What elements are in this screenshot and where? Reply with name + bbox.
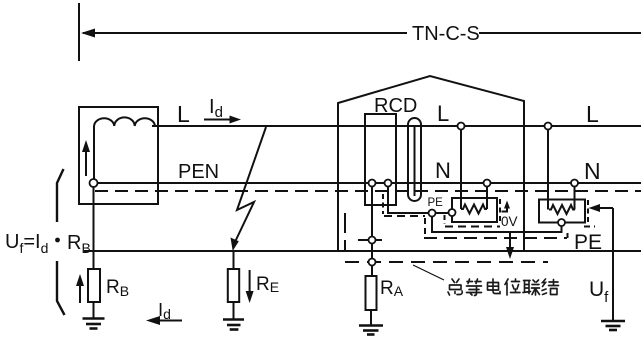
arrow Id bottom left [154, 320, 182, 322]
arrow 0V probe [502, 204, 508, 212]
dimension arrowhead [81, 29, 95, 38]
node equipotential junction [369, 259, 376, 266]
node appliance 2 PE terminal [558, 219, 565, 226]
appliance 1 case dashed [444, 215, 446, 224]
appliance 1 box [452, 198, 497, 222]
resistor RA [366, 276, 377, 310]
svg-text:PE: PE [574, 231, 602, 254]
svg-text:N: N [435, 158, 451, 183]
char deng [467, 279, 482, 296]
wire L line [152, 125, 641, 127]
resistor load appliance 2 [549, 205, 575, 214]
svg-text:PEN: PEN [178, 161, 219, 183]
svg-text:PE: PE [428, 197, 444, 209]
wire PEN node to RB [93, 187, 95, 269]
dimension arrow line TN-C-S [83, 32, 407, 34]
transformer T box [79, 107, 158, 204]
node N terminal a [369, 180, 376, 187]
wire earth reference line [84, 250, 641, 252]
node MET junction [369, 237, 376, 244]
wire N / PEN solid line [95, 182, 641, 184]
node transformer PEN [90, 179, 98, 187]
brace Uf bracket [57, 169, 65, 315]
char wei [505, 279, 520, 295]
wire PEN dashed PE line [95, 190, 641, 192]
main earthing terminal bar [358, 239, 382, 241]
wire through toroid [414, 126, 416, 196]
label equipotential bonding chinese [448, 279, 559, 296]
building outline [338, 76, 524, 251]
char lian [523, 280, 540, 295]
fault lightning arrow [235, 127, 267, 243]
wire L drop appliance 1 [460, 130, 462, 210]
svg-text:TN-C-S: TN-C-S [412, 23, 480, 45]
wire PE bus [432, 217, 562, 233]
RCD toroid oval [408, 118, 421, 201]
ground RE [233, 302, 235, 320]
node appliance 1 PE terminal [449, 209, 456, 216]
node N appliance 1 [484, 180, 491, 187]
node PE [429, 210, 436, 217]
dashed PE link from RCD [382, 194, 384, 214]
transformer winding [94, 117, 155, 126]
svg-text:L: L [437, 101, 449, 126]
wire L drop appliance 2 [547, 130, 549, 210]
node N terminal b [385, 180, 392, 187]
ground RB [93, 302, 95, 319]
appliance 2 case dashed [587, 200, 589, 222]
svg-text:L: L [177, 101, 190, 127]
arrow source up [85, 146, 87, 176]
char zong [448, 279, 462, 295]
ground RA [370, 310, 372, 326]
appliance 2 box [539, 200, 585, 223]
wire N drop appliance 2 [574, 187, 576, 210]
char jie [542, 279, 559, 295]
node N appliance 2 [571, 180, 578, 187]
resistor RE [228, 269, 239, 302]
wire PE node to appliance 1 [436, 212, 449, 214]
svg-text:L: L [586, 101, 599, 127]
resistor RB [88, 269, 100, 302]
arrow PE to equipotential bus [509, 232, 511, 252]
node N terminal 1 [371, 187, 373, 237]
char dian [488, 279, 501, 294]
svg-text:RCD: RCD [374, 95, 417, 117]
wire N terminal 2 to PE node [388, 187, 428, 214]
leader line to equipotential label [413, 265, 444, 280]
wire MET to RA [371, 244, 373, 259]
svg-text:0V: 0V [501, 214, 518, 229]
arrow RB current up [79, 280, 81, 303]
node L appliance 1 [458, 123, 465, 130]
wire N drop appliance 1 [486, 187, 488, 210]
RCD box [365, 114, 396, 205]
dot of formula [55, 238, 60, 243]
node L appliance 2 [545, 123, 552, 130]
svg-text:N: N [584, 158, 601, 184]
arrow Id top [204, 119, 234, 121]
wire winding left lead [93, 126, 95, 179]
arrow RE current down [249, 270, 251, 295]
dashed PE run to PE label [424, 237, 567, 239]
wire Uf probe down [612, 208, 614, 321]
wire earth line to RE [233, 252, 235, 269]
dashed wall earthing conductor [344, 213, 346, 251]
wire equipotential bonding dashed bus [345, 261, 548, 263]
arrow Uf probe to appliance 2 [592, 207, 613, 209]
resistor load appliance 1 [461, 205, 487, 214]
ground Uf [601, 320, 625, 323]
dimension end bar [78, 3, 80, 61]
